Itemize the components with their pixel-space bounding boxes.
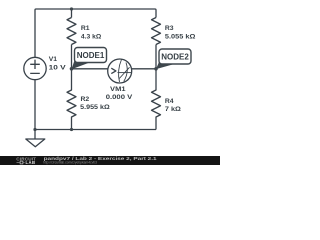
- svg-text:NODE2: NODE2: [161, 52, 189, 61]
- wire bottom rail: [35, 129, 156, 131]
- wire R1 top stub: [71, 9, 73, 18]
- svg-text:4.3 kΩ: 4.3 kΩ: [81, 34, 102, 41]
- wire R3 bottom to NODE2 junction: [155, 45, 157, 69]
- svg-text:LAB: LAB: [26, 160, 36, 165]
- svg-text:V1: V1: [49, 56, 58, 63]
- node A junction dot top: [70, 7, 73, 10]
- footer bar: [0, 156, 220, 165]
- svg-text:10 V: 10 V: [49, 65, 67, 72]
- resistor R4: [152, 69, 161, 130]
- ground: [34, 130, 36, 140]
- svg-text:0.000 V: 0.000 V: [106, 94, 133, 101]
- svg-text:R3: R3: [165, 25, 174, 32]
- svg-text:VM1: VM1: [110, 86, 126, 93]
- voltmeter VM1: [108, 59, 132, 83]
- wire VM1 right lead to NODE2: [132, 68, 157, 70]
- node B junction dot ground: [33, 128, 36, 131]
- node NODE2 junction dot: [154, 67, 158, 71]
- svg-text:http://circuitlab.com/c/yebpka: http://circuitlab.com/c/yebpkam4cvb3: [43, 161, 97, 165]
- resistor R3: [152, 18, 161, 45]
- logo trace: [17, 162, 25, 164]
- node C junction dot R2 bottom: [70, 128, 73, 131]
- wire NODE1 to VM1 left lead: [72, 68, 109, 70]
- wire top rail with left drop to V1 and right drop to R3: [35, 9, 156, 57]
- svg-text:R1: R1: [81, 25, 90, 32]
- node NODE2 label box: [159, 49, 191, 64]
- NODE1 label tail: [72, 60, 90, 70]
- svg-text:5.055 kΩ: 5.055 kΩ: [165, 34, 196, 41]
- svg-text:NODE1: NODE1: [77, 51, 105, 60]
- svg-text:7 kΩ: 7 kΩ: [165, 106, 182, 113]
- NODE2 label tail: [156, 61, 174, 69]
- svg-text:R4: R4: [165, 98, 174, 105]
- node NODE1 label box: [75, 48, 107, 63]
- resistor R2: [67, 69, 76, 130]
- resistor R1: [67, 18, 76, 45]
- voltage source V1: [24, 57, 46, 79]
- svg-text:5.955 kΩ: 5.955 kΩ: [80, 104, 110, 111]
- wire V1 bottom to ground rail: [34, 80, 36, 130]
- node NODE1 junction dot: [70, 67, 74, 71]
- wire R1 bottom to NODE1 junction: [71, 45, 73, 69]
- svg-text:R2: R2: [81, 96, 90, 103]
